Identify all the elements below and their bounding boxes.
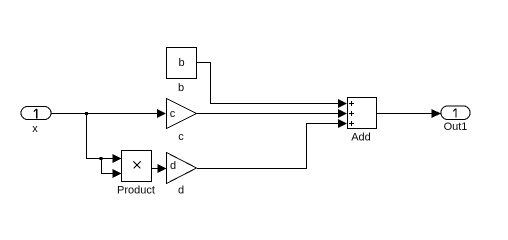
svg-text:d: d (178, 185, 184, 197)
svg-text:Product: Product (117, 185, 155, 197)
svg-text:Out1: Out1 (444, 121, 468, 133)
svg-text:c: c (170, 108, 176, 120)
svg-text:x: x (32, 123, 38, 135)
svg-text:b: b (178, 82, 184, 94)
svg-text:d: d (170, 160, 176, 172)
svg-text:Add: Add (351, 132, 371, 144)
svg-text:b: b (178, 57, 184, 69)
svg-text:c: c (178, 131, 184, 143)
